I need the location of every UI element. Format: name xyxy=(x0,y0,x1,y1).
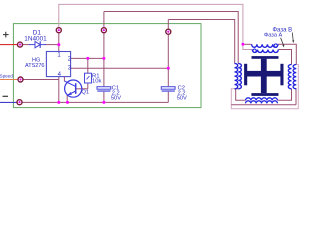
motor core horizontal arm xyxy=(247,71,281,77)
wire right col1 bottom to bottom row1 right xyxy=(278,89,292,101)
wire motor row2 right to right col1 xyxy=(278,50,291,65)
junction dot R1 top xyxy=(86,57,89,60)
wire node1 to diode xyxy=(23,44,30,46)
wire junction down to pin 1 xyxy=(58,45,60,52)
wire R1 top xyxy=(87,58,89,73)
svg-text:Q1: Q1 xyxy=(81,89,89,95)
diode D1 xyxy=(29,41,46,48)
winding bottom row2 xyxy=(246,101,278,103)
motor core vertical arm xyxy=(261,59,267,94)
wire pin 4 down to bus xyxy=(58,77,60,103)
wire C2 bottom lead xyxy=(167,92,169,103)
wire right col2 bottom to bottom row2 wire xyxy=(295,89,297,105)
winding left col1 xyxy=(235,64,238,89)
junction dot emitter bus xyxy=(66,101,69,104)
winding right col2 xyxy=(293,65,296,89)
winding top row2 xyxy=(252,50,278,53)
resistor R1 xyxy=(85,73,92,83)
wire emitter to bus xyxy=(66,95,68,102)
wire top line 3 xyxy=(168,20,234,64)
wire top line 2 xyxy=(104,12,238,64)
wire node A up and right (top line 1) xyxy=(59,4,253,49)
svg-text:50V: 50V xyxy=(111,96,121,102)
junction dot diode out xyxy=(57,43,60,46)
net GND green loop xyxy=(13,24,201,108)
wire motor top row1 feed xyxy=(243,43,252,45)
svg-text:Speed: Speed xyxy=(0,74,13,79)
wire motor row1 right to right col2 xyxy=(278,44,296,64)
wire bottom row2 under line xyxy=(231,104,296,106)
wire ground bus xyxy=(23,101,169,103)
node C xyxy=(166,29,171,34)
transistor Q1 xyxy=(64,80,81,97)
leader Фаза B xyxy=(291,33,294,41)
winding top row1 xyxy=(252,44,278,47)
node B xyxy=(101,28,106,33)
wire junction up to node A xyxy=(58,33,60,45)
wire C1 bottom lead xyxy=(103,92,105,103)
winding bottom row1 xyxy=(246,98,278,100)
minus terminal symbol xyxy=(3,96,9,97)
wire speed terminal orange stub xyxy=(0,79,18,81)
winding top row1 end loop xyxy=(274,44,277,47)
wire + terminal red stub xyxy=(0,44,17,46)
node terminal speed xyxy=(18,77,23,82)
wire collector to pin bottom xyxy=(63,77,65,81)
wire pin 2 xyxy=(71,57,104,59)
junction dot C2 net xyxy=(167,67,170,70)
winding top row2 start loop xyxy=(253,49,256,52)
wire C2 top lead xyxy=(167,68,169,86)
wire outer loop xyxy=(231,65,298,109)
winding right col1 xyxy=(288,65,291,89)
capacitor C1 xyxy=(97,87,111,92)
wire node C vertical xyxy=(167,35,169,69)
motor core top cap xyxy=(252,56,279,59)
winding left col2 xyxy=(238,64,241,89)
node terminal plus xyxy=(18,42,23,47)
junction dot C1 bus xyxy=(102,101,105,104)
motor core bottom cap xyxy=(251,93,278,96)
wire minus terminal blue stub xyxy=(0,101,17,103)
wire left col2 bottom to bottom row1 left xyxy=(236,89,246,101)
svg-text:ATS276: ATS276 xyxy=(25,63,44,69)
wire pin 3 xyxy=(71,67,169,69)
svg-text:Фаза A: Фаза A xyxy=(264,33,283,39)
wire C1 top lead xyxy=(103,58,105,86)
motor core right cap xyxy=(280,64,283,86)
svg-text:1N4001: 1N4001 xyxy=(24,36,47,43)
plus terminal symbol xyxy=(3,32,9,38)
leader Фаза A xyxy=(281,38,284,45)
svg-text:50V: 50V xyxy=(177,96,187,102)
wire node B vertical xyxy=(103,33,105,58)
svg-text:10k: 10k xyxy=(92,79,102,85)
junction dot C1 net xyxy=(102,57,105,60)
node A xyxy=(56,28,61,33)
junction dot motor row1 feed xyxy=(241,43,244,46)
wire diode to junction xyxy=(45,44,59,46)
op-amp U1 ATS276 box xyxy=(46,52,70,77)
capacitor C2 xyxy=(161,87,175,92)
wire Q1 base to R1 xyxy=(76,88,88,90)
node terminal minus xyxy=(17,100,22,105)
wire speed to pin4 line xyxy=(24,79,59,81)
motor core left cap xyxy=(244,64,247,86)
junction dot pin4 bus xyxy=(57,101,60,104)
